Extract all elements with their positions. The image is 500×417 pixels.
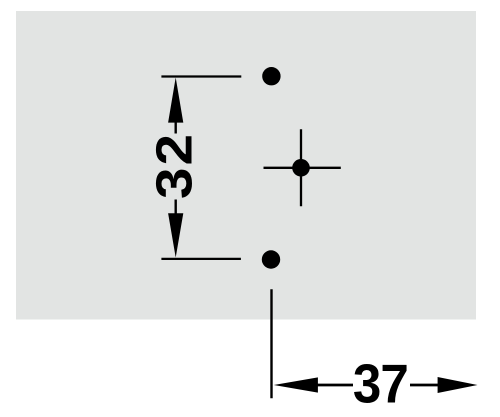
svg-text:37: 37 <box>353 354 408 415</box>
svg-text:32: 32 <box>146 132 203 199</box>
